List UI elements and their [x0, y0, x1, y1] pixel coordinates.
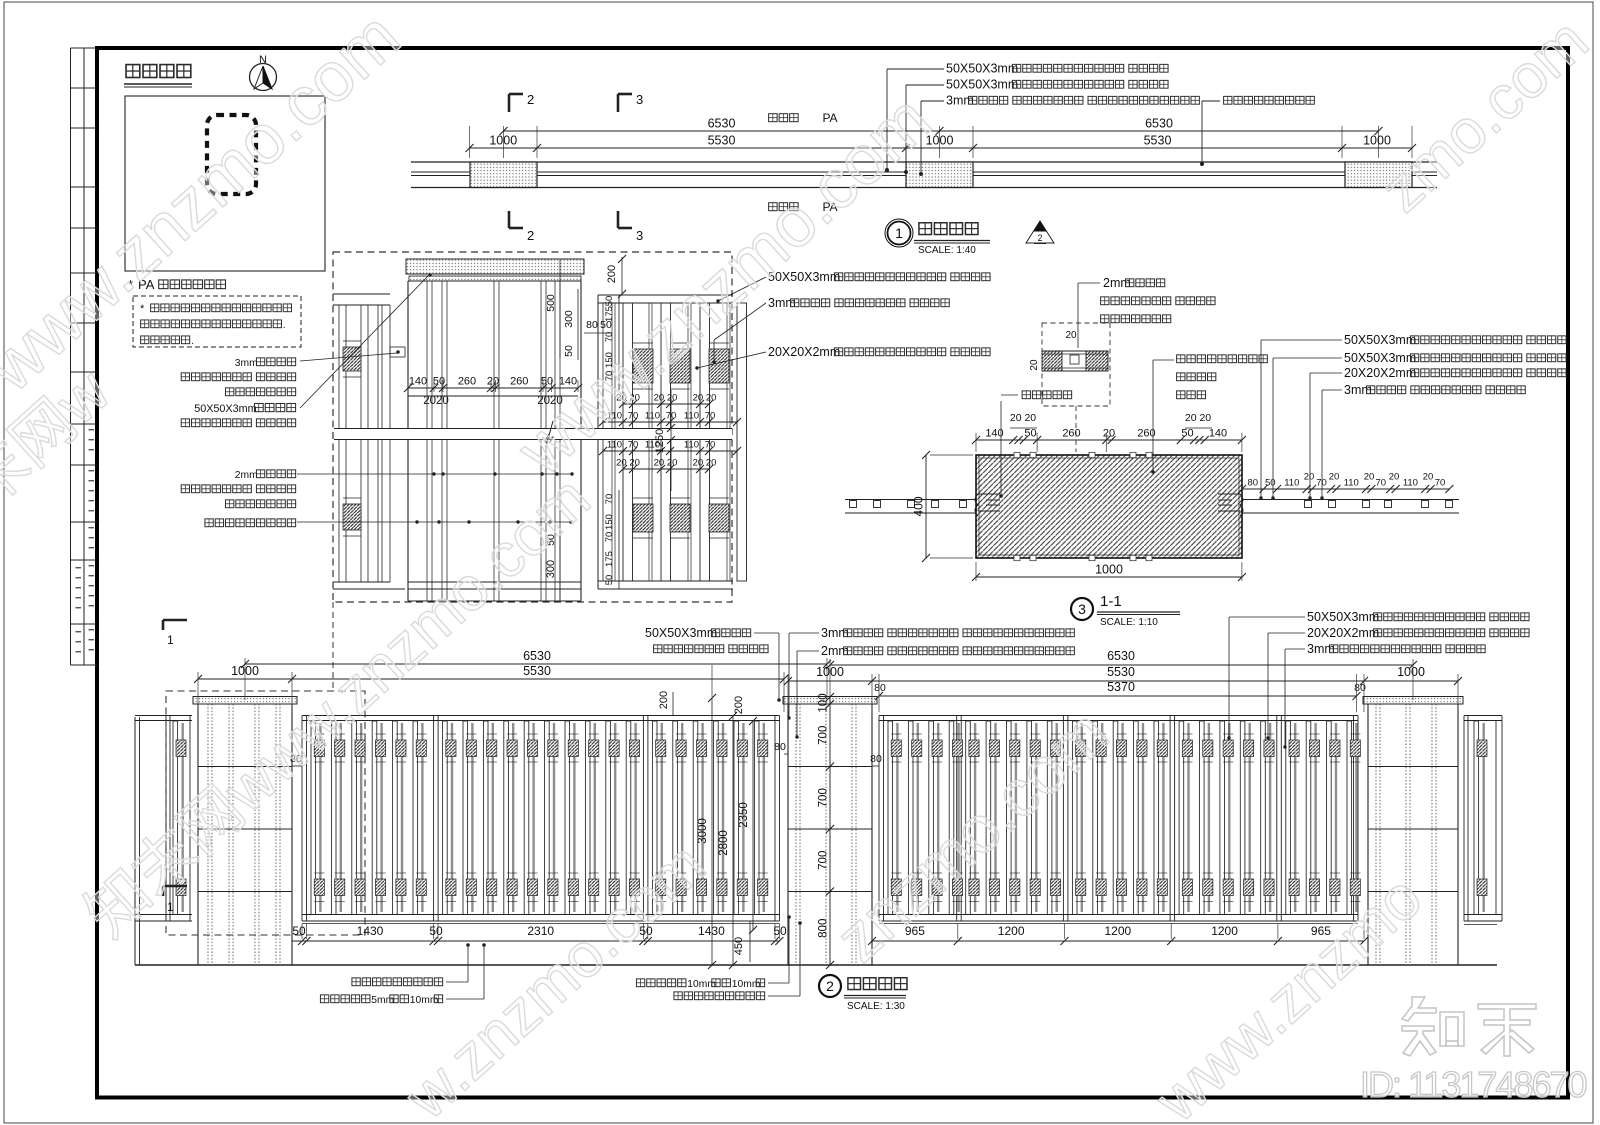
svg-text:500: 500 [545, 294, 557, 312]
svg-text:140: 140 [409, 376, 427, 388]
svg-text:50: 50 [1024, 428, 1036, 440]
svg-text:50X50X3mm: 50X50X3mm [194, 403, 256, 415]
svg-text:260: 260 [458, 376, 476, 388]
svg-text:50: 50 [604, 575, 615, 586]
svg-text:20 20: 20 20 [693, 393, 717, 404]
svg-text:200: 200 [733, 696, 745, 714]
svg-text:20 20: 20 20 [693, 458, 717, 469]
svg-text:20: 20 [1065, 330, 1077, 341]
svg-text:20: 20 [1364, 472, 1375, 483]
svg-text:110: 110 [645, 411, 660, 422]
svg-text:70: 70 [628, 440, 639, 451]
svg-text:110: 110 [607, 440, 622, 451]
svg-text:5530: 5530 [523, 664, 551, 678]
svg-text:20: 20 [1029, 359, 1040, 371]
svg-text:175: 175 [604, 551, 615, 567]
svg-text:ID: 1131748670: ID: 1131748670 [1360, 1064, 1587, 1105]
svg-text:700: 700 [818, 851, 830, 870]
svg-text:3000: 3000 [697, 818, 709, 844]
svg-text:50X50X3mm: 50X50X3mm [645, 626, 717, 640]
svg-text:1: 1 [167, 633, 174, 647]
svg-text:1000: 1000 [1363, 134, 1391, 148]
svg-text:70: 70 [1435, 478, 1446, 489]
svg-text:150: 150 [604, 514, 615, 530]
svg-text:20: 20 [487, 376, 499, 388]
svg-text:6530: 6530 [708, 117, 736, 131]
svg-text:PA: PA [822, 111, 837, 125]
svg-text:400: 400 [912, 496, 926, 516]
svg-text:50: 50 [1265, 478, 1276, 489]
svg-text:80: 80 [774, 741, 786, 753]
svg-text:6530: 6530 [1145, 117, 1173, 131]
svg-text:20X20X2mm: 20X20X2mm [1344, 366, 1416, 380]
svg-text:.: . [283, 320, 286, 331]
svg-text:50X50X3mm: 50X50X3mm [1307, 610, 1379, 624]
svg-text:.: . [191, 336, 194, 347]
svg-text:1200: 1200 [1104, 924, 1131, 938]
svg-text:SCALE: 1:40: SCALE: 1:40 [918, 245, 976, 256]
svg-text:2310: 2310 [527, 924, 554, 938]
svg-text:20X20X2mm: 20X20X2mm [768, 345, 840, 359]
svg-text:200: 200 [606, 265, 618, 283]
svg-text:50X50X3mm: 50X50X3mm [1344, 351, 1416, 365]
svg-text:1250: 1250 [654, 429, 666, 453]
svg-text:110: 110 [1284, 478, 1299, 489]
svg-text:20: 20 [1389, 472, 1400, 483]
svg-text:2350: 2350 [738, 802, 750, 828]
svg-text:2: 2 [527, 92, 534, 107]
svg-text:1000: 1000 [1095, 563, 1123, 577]
svg-text:20 20: 20 20 [654, 458, 678, 469]
svg-text:100: 100 [818, 693, 830, 712]
svg-text:5mm: 5mm [371, 995, 394, 1006]
svg-text:80: 80 [586, 319, 598, 331]
svg-text:300: 300 [563, 310, 575, 328]
svg-text:3mm: 3mm [235, 358, 258, 369]
svg-text:50: 50 [292, 924, 306, 938]
svg-text:5370: 5370 [1107, 680, 1135, 694]
svg-text:50: 50 [604, 296, 615, 307]
svg-text:50X50X3mm: 50X50X3mm [1344, 333, 1416, 347]
svg-text:5530: 5530 [708, 134, 736, 148]
svg-text:700: 700 [818, 788, 830, 807]
svg-text:200: 200 [658, 691, 670, 709]
svg-text:80: 80 [1247, 478, 1258, 489]
svg-text:450: 450 [733, 937, 745, 955]
svg-text:20: 20 [1304, 472, 1315, 483]
svg-text:6530: 6530 [1107, 649, 1135, 663]
svg-text:110: 110 [1403, 478, 1418, 489]
svg-text:20 20: 20 20 [1010, 412, 1036, 424]
svg-text:6530: 6530 [523, 649, 551, 663]
svg-text:5530: 5530 [1144, 134, 1172, 148]
svg-text:50: 50 [600, 319, 612, 331]
svg-text:50X50X3mm: 50X50X3mm [946, 78, 1018, 92]
svg-text:110: 110 [684, 440, 699, 451]
svg-text:1000: 1000 [489, 134, 517, 148]
svg-text:2020: 2020 [423, 395, 449, 407]
svg-text:2mm: 2mm [235, 470, 258, 481]
svg-text:2: 2 [1037, 233, 1042, 243]
svg-text:80: 80 [874, 682, 886, 694]
svg-text:5530: 5530 [1107, 665, 1135, 679]
svg-text:50: 50 [563, 345, 575, 357]
svg-text:110: 110 [1344, 478, 1359, 489]
svg-text:N: N [259, 54, 267, 66]
svg-text:SCALE: 1:10: SCALE: 1:10 [1100, 617, 1158, 628]
svg-text:80: 80 [870, 753, 882, 765]
svg-text:260: 260 [1062, 428, 1080, 440]
svg-text:*: * [140, 303, 145, 315]
svg-text:140: 140 [1209, 428, 1227, 440]
svg-text:20: 20 [1329, 472, 1340, 483]
svg-text:3: 3 [636, 228, 643, 243]
svg-text:50: 50 [773, 924, 787, 938]
svg-text:SCALE: 1:30: SCALE: 1:30 [847, 1001, 905, 1012]
svg-text:260: 260 [510, 376, 528, 388]
svg-text:1-1: 1-1 [1100, 593, 1122, 610]
svg-text:70: 70 [604, 494, 615, 505]
svg-text:70: 70 [705, 411, 716, 422]
svg-text:2: 2 [826, 978, 834, 994]
svg-text:1200: 1200 [1211, 924, 1238, 938]
svg-text:1430: 1430 [698, 924, 725, 938]
svg-text:700: 700 [818, 726, 830, 745]
svg-text:1430: 1430 [357, 924, 384, 938]
svg-text:3: 3 [1078, 601, 1086, 617]
svg-text:1200: 1200 [998, 924, 1025, 938]
svg-text:70: 70 [604, 532, 615, 543]
svg-text:70: 70 [1316, 478, 1327, 489]
svg-text:20 20: 20 20 [1185, 412, 1211, 424]
svg-text:70: 70 [705, 440, 716, 451]
svg-text:3: 3 [636, 92, 643, 107]
svg-text:70: 70 [1376, 478, 1387, 489]
svg-text:1: 1 [895, 225, 903, 241]
svg-text:20: 20 [1103, 428, 1115, 440]
svg-text:2800: 2800 [718, 830, 730, 856]
svg-text:110: 110 [684, 411, 699, 422]
svg-text:50X50X3mm: 50X50X3mm [946, 62, 1018, 76]
svg-text:1000: 1000 [1397, 665, 1425, 679]
svg-text:20X20X2mm: 20X20X2mm [1307, 626, 1379, 640]
svg-text:20 20: 20 20 [616, 458, 640, 469]
svg-text:2: 2 [527, 228, 534, 243]
svg-text:50: 50 [1181, 428, 1193, 440]
svg-text:20: 20 [1423, 472, 1434, 483]
svg-text:50: 50 [429, 924, 443, 938]
